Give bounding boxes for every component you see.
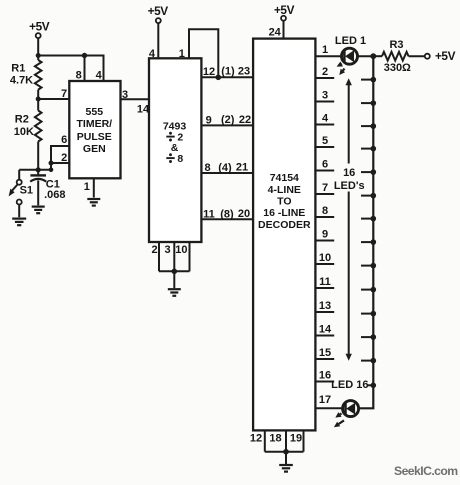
svg-text:23: 23 xyxy=(238,66,250,78)
svg-text:R2: R2 xyxy=(15,113,29,125)
svg-text:13: 13 xyxy=(319,300,331,312)
svg-text:18: 18 xyxy=(269,432,281,444)
svg-text:11: 11 xyxy=(319,276,331,288)
svg-text:8: 8 xyxy=(76,69,82,81)
svg-text:(2): (2) xyxy=(221,114,235,126)
svg-text:10: 10 xyxy=(319,252,331,264)
wire 555 pin 6 xyxy=(51,134,69,170)
svg-text:74154: 74154 xyxy=(270,172,299,184)
svg-text:3: 3 xyxy=(322,90,328,102)
power terminal +5V (R1 top) xyxy=(29,20,50,56)
svg-text:14: 14 xyxy=(319,324,332,336)
svg-text:12: 12 xyxy=(250,432,262,444)
power terminal +5V (7493) xyxy=(148,4,169,60)
node D (anode bus top junction) xyxy=(370,53,376,59)
ground (C1) xyxy=(32,207,45,214)
wire S1 to ground xyxy=(18,205,20,218)
svg-text:9: 9 xyxy=(322,229,328,241)
svg-text:3: 3 xyxy=(164,244,170,256)
wire 74154 pin 7 stub xyxy=(315,182,334,194)
wire 74154 pin 11 stub xyxy=(315,276,334,288)
wire 7493 ground pins 2,3,10 xyxy=(151,242,189,288)
svg-text:SeekIC.com: SeekIC.com xyxy=(394,464,458,478)
anode bus wire xyxy=(358,56,374,408)
svg-text:8: 8 xyxy=(177,153,183,165)
node A (+5V rail junction) xyxy=(36,53,41,58)
svg-text:4.7K: 4.7K xyxy=(10,75,33,87)
wire 74154 pin 13 stub xyxy=(315,300,334,312)
svg-text:LED's: LED's xyxy=(334,180,365,192)
svg-text:+5V: +5V xyxy=(29,20,50,34)
svg-text:(4): (4) xyxy=(218,162,232,174)
svg-text:19: 19 xyxy=(290,432,302,444)
wire 7493 pin 12 to 74154 pin 23 xyxy=(201,66,253,79)
svg-text:LED 16: LED 16 xyxy=(331,379,368,391)
wire 74154 pin 2 stub xyxy=(315,66,334,78)
wire 555 pin 1 xyxy=(84,178,94,197)
wire 74154 pin 9 stub xyxy=(315,229,334,241)
wire 555 pin 2 xyxy=(49,152,70,166)
svg-text:8: 8 xyxy=(322,205,328,217)
svg-text:.068: .068 xyxy=(44,189,65,201)
svg-text:4: 4 xyxy=(96,69,103,81)
svg-text:PULSE: PULSE xyxy=(77,131,112,143)
LED anode stub (row pin 14) xyxy=(361,334,376,340)
svg-text:7: 7 xyxy=(322,182,328,194)
wire 74154 pin 14 stub xyxy=(315,324,334,336)
LED anode stub (row pin 11) xyxy=(361,287,376,293)
wire 555 pin 7 xyxy=(38,88,69,100)
wire 7493 pin 1 feedback loop xyxy=(179,29,221,80)
svg-text:4: 4 xyxy=(322,113,329,125)
wire 74154 pin 3 stub xyxy=(315,90,334,102)
svg-text:20: 20 xyxy=(238,208,250,220)
ground (S1) xyxy=(12,219,26,226)
svg-text:10: 10 xyxy=(175,244,187,256)
wire 74154 pin 8 stub xyxy=(315,205,334,217)
label 16 LED's with double arrow xyxy=(334,78,365,361)
LED anode stub (row pin 7) xyxy=(361,193,376,199)
wire R3 to +5V xyxy=(409,55,425,57)
capacitor C1 .068 xyxy=(30,170,65,206)
svg-text:3: 3 xyxy=(122,89,128,101)
wire 74154 pin 17 to LED16 xyxy=(315,394,342,409)
svg-text:9: 9 xyxy=(206,114,212,126)
node C (timing junction wire) xyxy=(19,167,53,172)
wire 74154 pin 10 stub xyxy=(315,252,334,264)
svg-text:10K: 10K xyxy=(14,126,34,138)
svg-text:(1): (1) xyxy=(221,66,235,78)
svg-text:11: 11 xyxy=(203,208,215,220)
wire +5V rail to 555 pin 4 xyxy=(38,56,103,82)
wire 74154 pin 4 stub xyxy=(315,113,334,125)
svg-text:6: 6 xyxy=(61,134,67,146)
svg-text:2: 2 xyxy=(151,244,157,256)
svg-text:1: 1 xyxy=(322,44,328,56)
svg-text:1: 1 xyxy=(179,48,185,60)
svg-text:(8): (8) xyxy=(220,208,234,220)
wire 74154 ground pins 12,18,19 xyxy=(250,430,304,464)
switch S1 xyxy=(9,170,33,205)
wire LED1 to R3 junction xyxy=(357,55,374,57)
wire 555 pin 8 xyxy=(76,53,88,82)
svg-text:+5V: +5V xyxy=(435,49,456,63)
resistor R1 4.7K xyxy=(10,56,42,100)
wire 74154 pin 15 stub xyxy=(315,347,334,359)
resistor R2 10K xyxy=(14,99,42,170)
LED anode stub (row pin 5) xyxy=(361,146,376,152)
LED anode stub (row pin 15) xyxy=(361,358,376,364)
svg-text:LED 1: LED 1 xyxy=(335,35,366,47)
svg-text:7: 7 xyxy=(61,88,67,100)
wire 74154 pin 1 to LED1 xyxy=(315,44,341,56)
LED anode stub (row pin 6) xyxy=(361,169,376,175)
watermark SeekIC.com xyxy=(394,464,458,478)
svg-text:8: 8 xyxy=(204,162,210,174)
IC U3 74154 decoder xyxy=(253,39,315,431)
resistor R3 330&#937; xyxy=(374,39,411,74)
wire 7493 pin 8 to 74154 pin 21 xyxy=(201,161,253,174)
svg-text:4-LINE: 4-LINE xyxy=(268,184,301,196)
svg-text:16 -LINE: 16 -LINE xyxy=(263,207,305,219)
wire 7493 pin 9 to 74154 pin 22 xyxy=(201,114,253,126)
svg-text:12: 12 xyxy=(203,66,215,78)
LED LED1 xyxy=(335,35,366,64)
LED LED16 xyxy=(343,401,359,417)
svg-text:S1: S1 xyxy=(20,185,33,197)
wire 74154 pin 16 stub xyxy=(315,370,334,382)
LED anode stub (row pin 10) xyxy=(361,263,376,269)
wire 74154 pin 6 stub xyxy=(315,159,334,171)
LED anode stub (row pin 8) xyxy=(361,216,376,222)
node B (pin 7 junction) xyxy=(36,97,41,102)
svg-text:16: 16 xyxy=(343,167,355,179)
label LED 16 with leader xyxy=(331,379,376,391)
IC U1 555 timer xyxy=(69,81,120,178)
svg-text:330Ω: 330Ω xyxy=(384,62,411,74)
ground (555 pin 1) xyxy=(87,199,100,206)
svg-text:17: 17 xyxy=(319,394,331,406)
LED anode stub (row pin 9) xyxy=(361,239,376,245)
svg-text:555: 555 xyxy=(86,106,104,118)
ground (7493) xyxy=(168,289,181,296)
svg-text:TIMER/: TIMER/ xyxy=(77,118,113,130)
svg-text:DECODER: DECODER xyxy=(258,219,311,231)
LED anode stub (row pin 3) xyxy=(361,100,376,106)
wire 7493 pin 11 to 74154 pin 20 xyxy=(201,208,253,220)
svg-text:21: 21 xyxy=(236,161,248,173)
svg-text:TO: TO xyxy=(277,196,291,208)
svg-text:GEN: GEN xyxy=(83,143,106,155)
svg-text:R1: R1 xyxy=(11,62,25,74)
svg-text:+5V: +5V xyxy=(274,3,295,17)
LED1 emission arrows xyxy=(337,62,346,76)
LED anode stub (row pin 13) xyxy=(361,311,376,317)
ground (74154) xyxy=(279,465,293,472)
wire 555 pin 3 to 7493 pin 14 xyxy=(121,89,150,116)
svg-text:2: 2 xyxy=(322,66,328,78)
svg-text:R3: R3 xyxy=(389,39,403,51)
svg-text:5: 5 xyxy=(322,135,328,147)
power terminal +5V (R3) xyxy=(425,49,456,63)
wire 74154 pin 5 stub xyxy=(315,135,334,147)
svg-text:24: 24 xyxy=(269,27,282,39)
IC U2 7493 counter xyxy=(149,58,201,242)
power terminal +5V (74154) xyxy=(269,3,295,39)
svg-text:1: 1 xyxy=(84,181,90,193)
svg-text:2: 2 xyxy=(61,152,67,164)
svg-text:16: 16 xyxy=(319,370,331,382)
LED16 emission arrows xyxy=(334,412,344,427)
svg-text:+5V: +5V xyxy=(148,4,169,18)
svg-text:6: 6 xyxy=(322,159,328,171)
LED anode stub (row pin 4) xyxy=(361,123,376,129)
svg-text:22: 22 xyxy=(239,114,251,126)
svg-text:15: 15 xyxy=(319,347,331,359)
LED anode stub (row pin 2) xyxy=(361,77,376,83)
